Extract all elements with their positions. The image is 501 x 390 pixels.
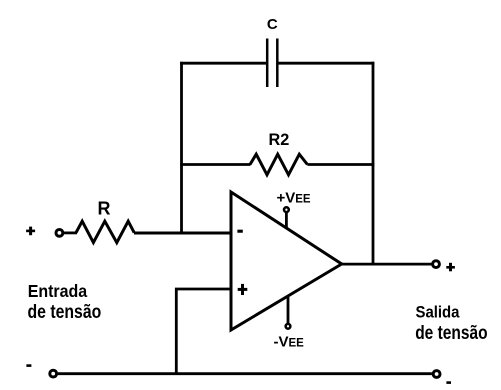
wire: input terminal to resistor R <box>64 231 77 234</box>
svg-text:Salida: Salida <box>416 303 460 322</box>
resistor R2 <box>250 154 307 175</box>
label + (input terminal polarity) <box>26 227 35 236</box>
power -VEE pin <box>286 297 291 329</box>
svg-text:R2: R2 <box>269 130 290 149</box>
label + (non-inverting input) <box>238 284 248 295</box>
wire: bottom rail <box>58 372 432 375</box>
op-amp U1 <box>231 192 342 330</box>
svg-text:de tensão: de tensão <box>415 322 487 344</box>
terminal: output + <box>433 261 440 268</box>
resistor R <box>76 221 134 242</box>
svg-text:de tensão: de tensão <box>28 301 102 323</box>
wire: top feedback right segment <box>279 62 375 65</box>
svg-text:R: R <box>98 199 111 219</box>
label - (bottom left polarity) <box>26 364 31 367</box>
capacitor C <box>267 39 277 88</box>
power +VEE pin <box>284 207 289 229</box>
wire: R2 right lead <box>307 163 374 166</box>
wire: right feedback vertical <box>372 62 375 266</box>
terminal: bottom right - <box>433 371 440 378</box>
wire: R2 left lead <box>180 163 250 166</box>
svg-text:C: C <box>267 16 278 33</box>
wire: resistor R to inverting input <box>134 232 231 235</box>
label - (inverting input) <box>237 230 242 233</box>
wire: non-inverting input from bottom rail <box>176 289 231 373</box>
terminal: bottom left - <box>50 370 57 377</box>
wire: left feedback vertical <box>180 62 183 234</box>
wire: top feedback left segment <box>180 62 266 65</box>
terminal: input + <box>56 230 63 237</box>
wire: output <box>340 263 432 266</box>
label + (output terminal polarity) <box>446 263 455 272</box>
label - (bottom right polarity) <box>446 381 451 384</box>
svg-text:Entrada: Entrada <box>28 281 88 301</box>
